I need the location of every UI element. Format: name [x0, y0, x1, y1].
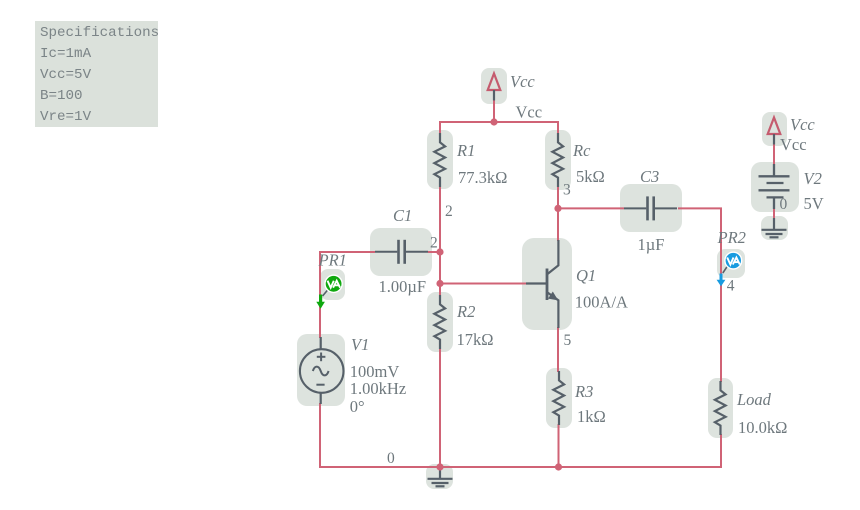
svg-text:Ic=1mA: Ic=1mA — [40, 46, 92, 62]
svg-text:C3: C3 — [640, 167, 659, 186]
svg-text:Vcc: Vcc — [790, 115, 815, 134]
svg-text:2: 2 — [430, 235, 438, 252]
svg-text:Q1: Q1 — [576, 266, 596, 285]
svg-text:B=100: B=100 — [40, 88, 83, 104]
svg-text:0°: 0° — [350, 397, 365, 416]
svg-text:2: 2 — [445, 203, 453, 220]
svg-text:Vcc: Vcc — [516, 103, 543, 122]
svg-text:17kΩ: 17kΩ — [457, 330, 494, 349]
svg-text:100A/A: 100A/A — [575, 293, 628, 312]
svg-text:R2: R2 — [456, 302, 475, 321]
svg-text:0: 0 — [387, 450, 395, 467]
svg-text:Rc: Rc — [572, 141, 591, 160]
svg-text:R3: R3 — [574, 382, 593, 401]
svg-text:V2: V2 — [804, 169, 822, 188]
svg-text:Load: Load — [736, 390, 772, 409]
svg-text:5kΩ: 5kΩ — [576, 167, 605, 186]
svg-text:5V: 5V — [804, 194, 824, 213]
svg-text:PR1: PR1 — [318, 251, 347, 270]
svg-text:1µF: 1µF — [638, 235, 665, 254]
svg-text:10.0kΩ: 10.0kΩ — [738, 418, 787, 437]
svg-text:5: 5 — [564, 332, 572, 349]
svg-text:77.3kΩ: 77.3kΩ — [458, 168, 507, 187]
svg-text:Vcc: Vcc — [780, 135, 807, 154]
svg-text:1.00µF: 1.00µF — [379, 277, 427, 296]
svg-text:Vre=1V: Vre=1V — [40, 109, 92, 125]
svg-text:V1: V1 — [351, 335, 369, 354]
svg-text:0: 0 — [780, 196, 788, 213]
svg-text:Specifications: Specifications — [40, 25, 159, 41]
svg-text:PR2: PR2 — [717, 228, 746, 247]
svg-text:C1: C1 — [393, 206, 412, 225]
svg-text:Vcc=5V: Vcc=5V — [40, 67, 92, 83]
svg-text:4: 4 — [727, 278, 735, 295]
svg-text:1kΩ: 1kΩ — [577, 407, 606, 426]
svg-text:1.00kHz: 1.00kHz — [350, 379, 406, 398]
svg-text:R1: R1 — [456, 141, 475, 160]
svg-text:Vcc: Vcc — [510, 72, 535, 91]
svg-text:3: 3 — [563, 182, 571, 199]
